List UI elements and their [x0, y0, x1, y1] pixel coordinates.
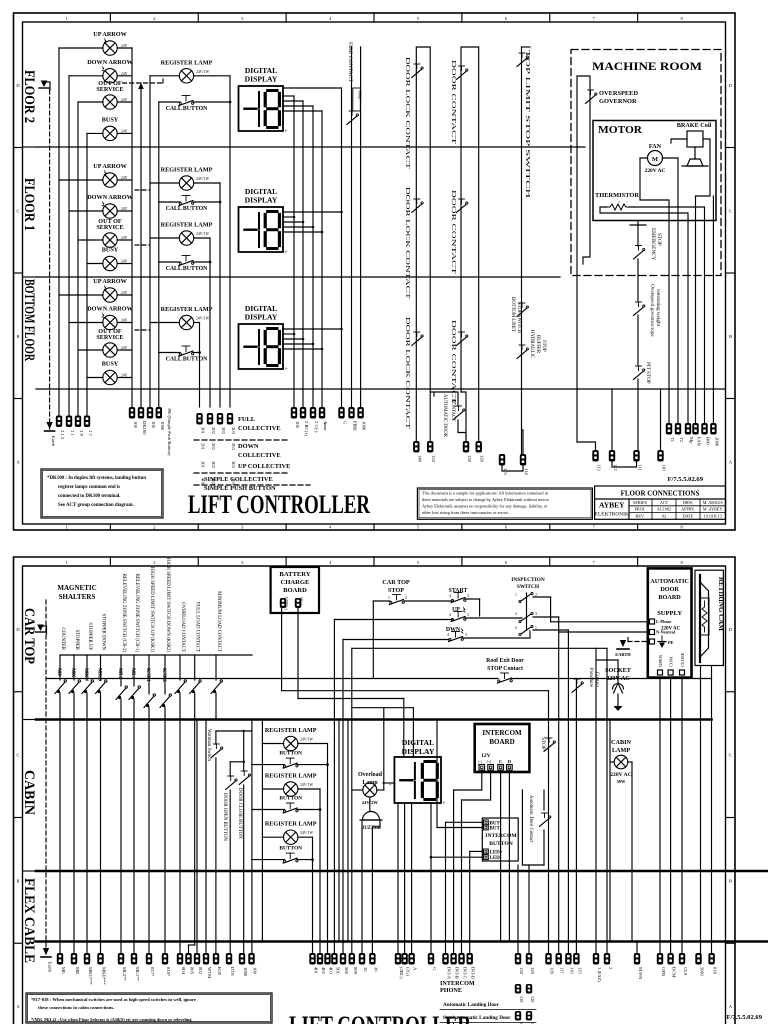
digital display floor 2: [239, 86, 284, 131]
svg-text:2001: 2001: [700, 967, 705, 977]
digital display cabin: [394, 757, 441, 803]
left strip divider page2 2: [23, 870, 37, 872]
svg-text:CALL BUTTON: CALL BUTTON: [166, 266, 208, 272]
svg-text:STOP: STOP: [656, 233, 662, 246]
wire to intercom button BUT2: [437, 827, 482, 829]
svg-text:LIFT CONTROLLER: LIFT CONTROLLER: [289, 1011, 471, 1024]
svg-text:RELEVELING ZONE SWITCH (CR-1): RELEVELING ZONE SWITCH (CR-1): [134, 574, 139, 653]
lamp common wire floor 1: [117, 179, 132, 181]
svg-text:F/7.5.5.02.69: F/7.5.5.02.69: [667, 476, 703, 483]
terminal 403 page2mid: [324, 953, 330, 965]
svg-text:REGISTER LAMP: REGISTER LAMP: [161, 167, 213, 174]
bus wire up-arrow lamps: [58, 48, 60, 416]
terminal 130: [463, 441, 469, 453]
svg-text:FLOOR 1: FLOOR 1: [21, 178, 37, 231]
terminal FAN: [692, 423, 698, 435]
svg-text:24V: 24V: [121, 346, 128, 350]
lamp UP ARROW floor 1: [103, 173, 117, 187]
door open button wire: [229, 762, 231, 776]
dashed tap to register lamp floor2: [123, 82, 164, 84]
svg-text:DOOR LOCK CONTACT: DOOR LOCK CONTACT: [404, 317, 410, 430]
display bundle vertical A: [321, 111, 323, 407]
lamp OUT OF SERVICE floor 1: [103, 233, 117, 247]
register lamp wires cabin 3: [262, 836, 283, 838]
floor separator line floor2/floor1: [36, 146, 585, 148]
svg-text:FAN: FAN: [697, 437, 702, 447]
svg-text:ACT: ACT: [660, 500, 669, 505]
wire LED+: [470, 850, 483, 852]
svg-text:130: 130: [519, 967, 524, 975]
svg-text:100: 100: [253, 967, 258, 975]
terminal 1 (FAZ) page2r: [593, 953, 599, 965]
door lock switch floor2: [412, 69, 422, 78]
svg-text:113: 113: [597, 464, 602, 471]
svg-text:register lamps common end is: register lamps common end is: [58, 485, 120, 490]
register lamp wires cabin 1: [262, 743, 283, 745]
terminal (2G) page2r: [401, 953, 407, 965]
svg-text:T2: T2: [679, 437, 684, 443]
svg-text:C: C: [16, 208, 19, 213]
terminal INT-B page2r: [450, 953, 456, 965]
svg-text:M. AKKUS: M. AKKUS: [703, 500, 724, 505]
car top stop switch: [390, 602, 392, 604]
terminal 113: [592, 450, 598, 462]
call button vertical floor 1 up: [219, 183, 221, 407]
svg-text:24V: 24V: [121, 44, 128, 48]
display bundle vertical 2G: [312, 106, 314, 407]
automatic door contact switch page2: [540, 818, 550, 827]
terminal ML1** page2: [131, 953, 137, 965]
svg-text:DOWN ARROW: DOWN ARROW: [87, 59, 133, 66]
page inner border: [23, 22, 726, 524]
terminal DTS page2: [226, 953, 232, 965]
svg-text:4: 4: [447, 633, 449, 637]
wire 112-111 bracket: [612, 462, 637, 468]
svg-text:810: 810: [713, 967, 718, 975]
left strip divider page2 1: [23, 719, 37, 721]
svg-text:02: 02: [662, 513, 666, 518]
wire 115-114 bottom bracket: [502, 466, 523, 472]
svg-text:GOVERNOR: GOVERNOR: [599, 98, 637, 105]
svg-text:24V: 24V: [121, 319, 128, 323]
svg-text:1000: 1000: [243, 967, 248, 977]
svg-text:REGISTER LAMP: REGISTER LAMP: [265, 727, 317, 734]
svg-text:24V/1W: 24V/1W: [300, 738, 313, 742]
svg-text:UP: UP: [452, 607, 460, 613]
earth symbol bottom page2: [43, 948, 49, 955]
bottom limit stop switch: [517, 308, 527, 317]
display input wire: [383, 782, 394, 784]
svg-text:M. AYBEY: M. AYBEY: [703, 507, 723, 512]
svg-text:RELEVELING ZONE SWITCH (CR-2): RELEVELING ZONE SWITCH (CR-2): [121, 574, 126, 653]
battery wire GND down: [281, 608, 283, 691]
lamp UP ARROW floor 2: [103, 41, 117, 55]
svg-text:24V/1W: 24V/1W: [196, 317, 209, 321]
emergency stop switch: [634, 251, 644, 260]
svg-text:K20: K20: [217, 967, 222, 976]
intercom button box: [482, 818, 518, 861]
terminal G page2r: [428, 953, 434, 965]
register lamp floor 1 up: [179, 176, 193, 190]
cabin lamp: [614, 755, 628, 769]
svg-text:3 9: 3 9: [79, 430, 84, 436]
svg-text:1000: 1000: [362, 421, 367, 431]
svg-text:connected to DK100 terminal.: connected to DK100 terminal.: [58, 494, 120, 499]
intercom board box: [475, 724, 530, 772]
svg-text:+: +: [389, 783, 392, 788]
svg-text:*817-818 : When mechanical swi: *817-818 : When mechanical switches are …: [31, 997, 196, 1002]
socket wire 2: [606, 648, 608, 953]
terminal M P/N wire: [636, 942, 638, 954]
svg-text:BOARD: BOARD: [489, 738, 514, 746]
svg-text:50W: 50W: [617, 779, 626, 784]
svg-text:BUTTON: BUTTON: [489, 841, 513, 847]
terminal 120 page2r: [526, 953, 532, 965]
svg-text:220V AC: 220V AC: [610, 772, 632, 778]
svg-text:PIT STOP: PIT STOP: [645, 362, 651, 384]
call button floor 1 up: [179, 203, 181, 205]
thick separator cabin / flex cable: [36, 870, 768, 873]
button vertical cabin 1: [327, 744, 329, 954]
horizontal wire 707.7: [352, 707, 414, 709]
earth tap symbol top: [39, 87, 49, 89]
terminal 2000: [710, 423, 716, 435]
svg-text:(2BC): (2BC): [399, 967, 404, 979]
terminal 120: [476, 441, 482, 453]
svg-text:1 2: 1 2: [88, 430, 93, 436]
svg-text:AUTOMATIC DOOR: AUTOMATIC DOOR: [442, 394, 447, 438]
terminal 805 page2: [185, 953, 191, 965]
svg-text:INSPECTION: INSPECTION: [511, 577, 545, 583]
svg-text:INTERCOM: INTERCOM: [482, 729, 522, 737]
svg-text:B: B: [16, 878, 19, 883]
terminal 802 page2: [194, 953, 200, 965]
terminal A: [319, 407, 325, 419]
automatic door contact box page2: [522, 790, 544, 865]
svg-text:501: 501: [335, 967, 340, 975]
svg-text:120: 120: [480, 455, 485, 463]
door close button wire: [243, 731, 245, 771]
svg-text:12V: 12V: [481, 753, 491, 759]
wire display2 outputs: [283, 216, 294, 218]
svg-text:DOOR OPEN BUTTON: DOOR OPEN BUTTON: [222, 793, 227, 841]
zone column ticks top: [109, 557, 111, 566]
svg-text:HIGH SPEED LIMIT SWITCH DOWN (: HIGH SPEED LIMIT SWITCH DOWN (KSR2): [165, 558, 170, 653]
svg-text:COUNTER: COUNTER: [60, 627, 65, 650]
zone row ticks: [14, 147, 23, 149]
svg-text:Roof Exit Door: Roof Exit Door: [486, 658, 524, 664]
svg-text:802: 802: [198, 967, 203, 975]
machine room dashed box: [571, 50, 721, 276]
fire contact vertical: [351, 47, 353, 407]
svg-text:2000: 2000: [714, 437, 719, 447]
svg-text:BOARD: BOARD: [283, 587, 307, 594]
earth dashed riser page2: [45, 600, 47, 955]
wire overspeed to terminal 113: [577, 442, 596, 450]
display bundle vertical G: [341, 88, 343, 407]
terminal T2: [675, 423, 681, 435]
svg-text:24V/1W: 24V/1W: [300, 783, 313, 787]
svg-text:1 (FAZ): 1 (FAZ): [597, 967, 602, 982]
magnetic switch KSR1: [148, 655, 150, 694]
svg-text:BOTTOM LIMIT: BOTTOM LIMIT: [510, 297, 515, 332]
terminal Mp: [685, 423, 691, 435]
svg-text:BUFFER: BUFFER: [535, 335, 540, 354]
svg-text:M0: M0: [56, 668, 62, 676]
svg-text:SERVICE: SERVICE: [96, 334, 123, 341]
magnetic switch ML1: [133, 655, 135, 686]
svg-text:INT-B: INT-B: [455, 967, 460, 979]
svg-text:500: 500: [344, 967, 349, 975]
register lamp bottom floor: [179, 315, 193, 329]
svg-text:24V/1W: 24V/1W: [300, 831, 313, 835]
svg-text:ML2**: ML2**: [122, 967, 127, 981]
svg-text:THERMISTOR: THERMISTOR: [595, 192, 639, 199]
dashed tap to register lamp floor1 down: [135, 244, 150, 246]
svg-text:MKD: MKD: [97, 668, 103, 681]
svg-text:SHALTERS: SHALTERS: [59, 593, 96, 601]
display bundle vertical 2BC: [302, 101, 304, 407]
svg-text:Wattman Switch: Wattman Switch: [206, 729, 211, 761]
door contact loop: [461, 47, 479, 441]
svg-text:STOPPER: STOPPER: [74, 630, 79, 651]
terminal 115: [499, 454, 505, 466]
svg-text:36: 36: [373, 967, 378, 972]
svg-text:130: 130: [467, 455, 472, 463]
svg-text:2 BC(1): 2 BC(1): [304, 421, 309, 436]
svg-text:BUSY: BUSY: [102, 116, 119, 123]
register lamp floor 2: [179, 69, 193, 83]
svg-text:LAMP: LAMP: [612, 747, 630, 754]
svg-text:CHARGE: CHARGE: [281, 579, 311, 586]
svg-text:2: 2: [405, 596, 407, 600]
svg-text:DOOR CLOSE BUTTON: DOOR CLOSE BUTTON: [237, 788, 242, 839]
svg-text:1000: 1000: [160, 421, 165, 431]
svg-text:FULL LOAD CONTACT: FULL LOAD CONTACT: [195, 602, 200, 652]
terminal INT-D page2r: [467, 953, 473, 965]
terminal 115 page2r: [573, 953, 579, 965]
svg-text:TOP LIMIT STOP SWITCH: TOP LIMIT STOP SWITCH: [524, 50, 530, 200]
top limit stop switch: [517, 58, 527, 67]
svg-text:BATTERY: BATTERY: [279, 571, 310, 578]
svg-text:OPEN: OPEN: [658, 654, 663, 667]
svg-text:tensioning weight: tensioning weight: [655, 289, 661, 327]
thermistor wires: [600, 207, 688, 221]
inspection switch gang: [521, 594, 531, 601]
svg-text:3: 3: [535, 612, 537, 616]
svg-text:MKU: MKU: [83, 668, 89, 681]
svg-text:OVERLOAD CONTACT: OVERLOAD CONTACT: [180, 602, 185, 652]
note box 817-818: [26, 993, 272, 1023]
svg-text:UP ARROW: UP ARROW: [93, 278, 127, 285]
svg-text:117: 117: [560, 967, 565, 974]
retiring cam box: [695, 570, 723, 665]
svg-text:869: 869: [353, 967, 358, 975]
svg-text:B60: B60: [706, 437, 711, 445]
svg-text:130: 130: [519, 996, 524, 1002]
zone column ticks bottom: [109, 524, 111, 530]
ADB output wires: [659, 678, 661, 953]
terminal 140: [413, 441, 419, 453]
lamp OUT OF SERVICE bottom floor: [103, 343, 117, 357]
wire bottom out of service tap: [78, 349, 103, 351]
terminal 202: [207, 413, 213, 425]
svg-text:*(M)L M(L)2 : Use when Floor S: *(M)L M(L)2 : Use when Floor Selector is…: [31, 1017, 192, 1022]
ADB PE earth symbol: [658, 641, 666, 643]
svg-text:REV.: REV.: [636, 513, 645, 518]
thick separator car top / cabin: [36, 718, 712, 721]
svg-text:301: 301: [201, 461, 206, 469]
terminal 810 page2r: [708, 953, 714, 965]
svg-text:MKU***: MKU***: [88, 967, 93, 985]
door lock contact loop: [416, 47, 430, 441]
socket ground: [617, 694, 619, 700]
svg-text:202: 202: [211, 427, 216, 435]
terminal 35 page2mid: [359, 953, 365, 965]
intercom board terminals: [479, 765, 485, 771]
door contact switch floor2: [457, 71, 467, 80]
svg-text:24V: 24V: [121, 98, 128, 102]
svg-text:BUTTON: BUTTON: [279, 846, 302, 852]
svg-text:24V: 24V: [121, 236, 128, 240]
earth tap symbol page2: [36, 631, 46, 633]
svg-text:804: 804: [181, 967, 186, 975]
terminal 1000: [156, 407, 162, 419]
terminal pair automatic landing: [515, 984, 521, 994]
title block header FLOOR CONNECTIONS: [595, 498, 726, 500]
svg-text:303: 303: [231, 461, 236, 469]
bundle vertical 343: [342, 640, 344, 954]
brake plunger: [694, 147, 696, 159]
terminal CLS page2r: [679, 953, 685, 965]
fire contact switch: [347, 116, 357, 125]
title block grid: [629, 505, 726, 507]
button wires cabin 1: [252, 764, 285, 766]
svg-text:UP COLLECTIVE: UP COLLECTIVE: [238, 463, 290, 470]
svg-text:110: 110: [662, 464, 667, 471]
terminal M0 page2: [57, 953, 63, 965]
svg-text:24V: 24V: [121, 129, 128, 133]
terminal 114: [520, 454, 526, 466]
terminal 2BC(1): [300, 407, 306, 419]
door contact left jog to 130: [461, 392, 466, 441]
bus wire down-arrow lamps: [68, 76, 70, 416]
magnetic switch FULL LOAD CONTACT: [194, 655, 196, 680]
note box DK100: [41, 469, 163, 518]
svg-text:FLEX CABLE: FLEX CABLE: [21, 878, 37, 963]
bus wire busy lamps: [86, 133, 88, 416]
lamp DOWN ARROW floor 2: [103, 69, 117, 83]
terminal 869 page2mid: [349, 953, 355, 965]
wattman switch wire: [215, 731, 217, 744]
svg-text:DOWN ARROW: DOWN ARROW: [87, 194, 133, 201]
bundle vertical 348: [347, 720, 349, 942]
wire floor1 down arrow tap: [69, 210, 103, 212]
ADB terminal PE: [650, 639, 655, 644]
svg-text:ML1**: ML1**: [135, 967, 140, 981]
svg-text:COM: COM: [669, 657, 674, 667]
svg-text:FIRE: FIRE: [358, 91, 362, 100]
svg-text:ELEKTRONIK: ELEKTRONIK: [595, 512, 629, 518]
svg-text:RETIRING CAM: RETIRING CAM: [717, 577, 725, 631]
terminal 112b: [609, 450, 615, 462]
wire 110 up: [660, 389, 662, 450]
svg-text:24V/1W: 24V/1W: [196, 70, 209, 74]
svg-text:100: 100: [151, 421, 156, 429]
svg-text:PROJ.: PROJ.: [635, 507, 646, 512]
roof exit stop wire: [46, 678, 498, 680]
disclaimer box: [417, 488, 592, 519]
button cabin 1: [283, 765, 285, 767]
svg-text:120: 120: [530, 996, 535, 1002]
left label strip divider line 1: [23, 146, 37, 148]
motor box: [593, 121, 716, 221]
terminal FIRE: [348, 407, 354, 419]
automatic door contact loop: [430, 391, 434, 393]
svg-text:100: 100: [295, 421, 300, 429]
earth symbol bottom: [46, 422, 52, 429]
wire 114 to top limit chain: [522, 430, 524, 454]
wire to pit stop: [637, 315, 639, 366]
svg-text:OPN: OPN: [661, 967, 666, 977]
svg-text:2: 2: [515, 626, 517, 630]
svg-text:STOP Contact: STOP Contact: [487, 666, 523, 672]
dashed tap to register lamp bottom: [135, 329, 150, 331]
terminal 501 page2mid: [331, 953, 337, 965]
motor terminal wires down: [668, 221, 670, 424]
svg-text:1: 1: [535, 626, 537, 630]
svg-text:PHONE: PHONE: [440, 987, 462, 994]
svg-text:SUPPLY: SUPPLY: [657, 610, 682, 617]
page outer border: [14, 557, 736, 1024]
svg-text:CLS: CLS: [683, 967, 688, 976]
cabin button common vertical: [251, 720, 253, 954]
earth symbol ADB: [620, 640, 626, 647]
svg-text:HYDRAULIC: HYDRAULIC: [529, 330, 534, 358]
terminal 36 page2mid: [369, 953, 375, 965]
magnetic switch M0: [59, 655, 61, 680]
svg-text:MAGNETIC: MAGNETIC: [57, 584, 96, 592]
svg-text:1: 1: [65, 16, 67, 21]
magnetic switch MK: [73, 655, 75, 680]
svg-text:112: 112: [613, 464, 618, 471]
svg-text:Earth: Earth: [48, 962, 53, 973]
terminal (2BC) page2r: [395, 953, 401, 965]
digital display floor 1: [239, 207, 284, 252]
svg-text:Automatic Door Contact: Automatic Door Contact: [528, 795, 533, 843]
vertical 1000 right: [360, 47, 362, 407]
button vertical cabin 2: [319, 789, 321, 953]
door open button switch: [226, 781, 236, 790]
svg-text:805: 805: [190, 967, 195, 975]
pit stop switch: [634, 371, 644, 380]
svg-text:B: B: [729, 334, 732, 339]
svg-text:2: 2: [153, 525, 155, 530]
svg-text:24V: 24V: [121, 374, 128, 378]
display bundle vertical 100: [293, 96, 295, 407]
battery board terminal M+: [295, 598, 301, 608]
switch hang bus: [60, 654, 252, 656]
terminal 817* page2: [146, 953, 152, 965]
lamp BUSY floor 2: [103, 126, 117, 140]
call button wires floor 1 down: [159, 261, 180, 263]
button wires cabin 3: [252, 859, 285, 861]
svg-text:Parachute: Parachute: [588, 668, 593, 687]
call button bottom floor: [179, 353, 181, 355]
svg-text:CABIN: CABIN: [21, 770, 37, 816]
svg-text:B: B: [16, 334, 19, 339]
svg-text:DOOR LOCK CONTACT: DOOR LOCK CONTACT: [404, 187, 410, 300]
